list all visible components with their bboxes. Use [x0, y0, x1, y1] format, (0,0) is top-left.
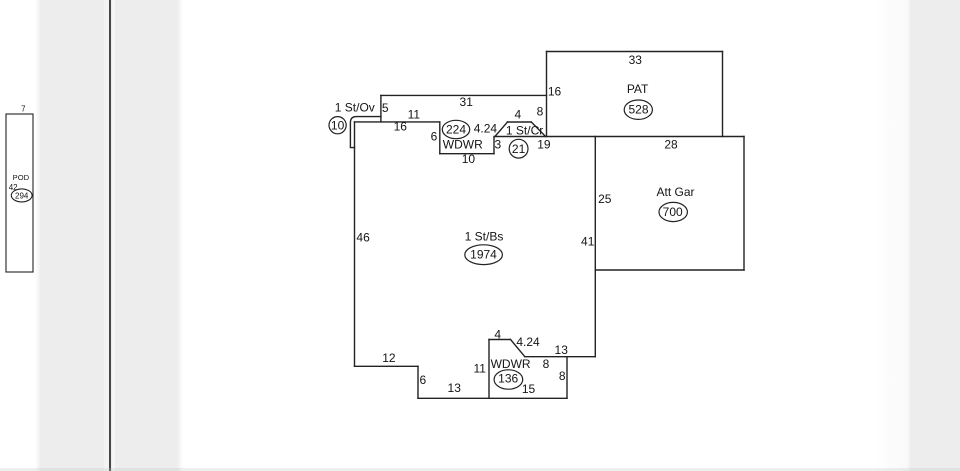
main white photo area	[177, 0, 909, 471]
svg-text:700: 700	[663, 205, 683, 219]
canopy trapezoid left diagonal	[495, 122, 508, 137]
svg-text:13: 13	[448, 381, 462, 395]
wall: upper-left top edge (16/11 ft)	[355, 121, 440, 123]
wall: bottom-left horizontal (12 ft)	[355, 365, 419, 367]
svg-text:16: 16	[394, 119, 408, 133]
svg-text:WDWR: WDWR	[491, 357, 531, 371]
circle around 21 (canopy area)	[509, 139, 528, 158]
svg-text:1 St/Bs: 1 St/Bs	[465, 229, 504, 243]
main photo right boundary soft step	[906, 0, 911, 471]
svg-text:5: 5	[382, 101, 389, 115]
left white strip: edge of previous carousel photo	[0, 0, 36, 471]
ellipse around 1974 (1 St/Bs area)	[465, 245, 503, 265]
svg-text:10: 10	[331, 118, 345, 132]
svg-text:8: 8	[559, 369, 566, 383]
wall: main left edge (46 ft)	[354, 122, 356, 366]
carousel separator bright ring right	[112, 0, 115, 471]
wall: WDWR lower left (11 ft)	[488, 340, 490, 399]
svg-text:8: 8	[537, 105, 544, 119]
wall: garage right edge	[743, 137, 745, 271]
svg-text:46: 46	[356, 231, 370, 245]
svg-text:8: 8	[543, 357, 550, 371]
svg-text:41: 41	[581, 235, 595, 249]
svg-text:15: 15	[522, 382, 536, 396]
svg-text:6: 6	[431, 129, 438, 143]
svg-text:11: 11	[408, 108, 421, 122]
POD sketch box	[6, 114, 33, 272]
wall: WDWR upper right side (3 ft)	[493, 137, 495, 154]
wall: WDWR upper left side (6 ft)	[439, 122, 441, 154]
wall: top-left jog (5 ft)	[380, 95, 382, 122]
ellipse around 224 (WDWR upper area)	[442, 120, 469, 138]
svg-text:136: 136	[498, 371, 518, 385]
svg-text:21: 21	[512, 142, 526, 156]
svg-text:19: 19	[537, 138, 551, 152]
main photo right-edge soft shadow	[875, 0, 906, 471]
wall: PAT top edge (33 ft)	[547, 51, 723, 53]
wall: main right edge (41 ft)	[594, 137, 596, 357]
circle around 10 (1 St/Ov area)	[329, 117, 346, 134]
svg-text:1 St/Ov: 1 St/Ov	[335, 100, 375, 114]
svg-text:224: 224	[446, 123, 466, 137]
wall: WDWR lower right (8 ft)	[566, 357, 568, 399]
svg-text:1974: 1974	[470, 247, 497, 261]
svg-text:12: 12	[382, 351, 396, 365]
POD area ellipse 294	[11, 189, 32, 202]
svg-text:PAT: PAT	[627, 82, 649, 96]
svg-text:528: 528	[628, 103, 648, 117]
svg-text:33: 33	[629, 53, 643, 67]
svg-text:31: 31	[460, 95, 474, 109]
wall: main top edge (31 ft)	[381, 94, 547, 96]
carousel separator dark vertical line	[109, 0, 111, 471]
svg-text:4.24: 4.24	[516, 335, 540, 349]
wall: bottom-right horizontal (13 ft)	[525, 356, 596, 358]
svg-text:4: 4	[515, 108, 522, 122]
ellipse around 700 (Att Gar area)	[659, 202, 687, 221]
wall: PAT left edge / main right upper (16+8 ft)	[546, 52, 548, 137]
carousel separator bright ring left	[104, 0, 109, 471]
svg-text:7: 7	[21, 104, 26, 113]
svg-text:Att Gar: Att Gar	[656, 185, 694, 199]
wall: bottom-left jog (6 ft)	[417, 366, 419, 398]
svg-text:28: 28	[664, 138, 678, 152]
svg-text:4: 4	[494, 328, 501, 342]
svg-text:3: 3	[495, 138, 502, 152]
lower diagonal (4.24 ft)	[511, 340, 525, 357]
svg-text:1 St/Cr: 1 St/Cr	[506, 123, 543, 137]
svg-text:11: 11	[473, 362, 486, 376]
wall: WDWR lower top (4 ft)	[489, 339, 511, 341]
wall: long horizontal at PAT bottom / garage top (19+28 ft)	[495, 136, 744, 138]
wall: bottom edge (13+15 ft)	[418, 397, 567, 399]
wall: WDWR upper bottom (10 ft)	[440, 153, 494, 155]
svg-text:10: 10	[462, 152, 476, 166]
svg-text:294: 294	[15, 191, 29, 200]
ellipse around 528 (PAT area)	[624, 100, 652, 119]
svg-text:POD: POD	[13, 173, 30, 182]
overhang 1 St/Ov outer boundary	[350, 117, 381, 148]
bottom subtle edge shade	[0, 468, 960, 471]
wall: garage bottom edge	[595, 269, 744, 271]
canopy trapezoid top (4 ft)	[508, 121, 532, 123]
svg-text:6: 6	[420, 373, 427, 387]
wall: PAT right edge	[722, 52, 724, 137]
svg-text:16: 16	[548, 85, 562, 99]
ellipse around 136 (WDWR lower area)	[494, 370, 523, 389]
soft edge of left white strip	[36, 0, 41, 471]
svg-text:WDWR: WDWR	[443, 137, 483, 151]
svg-text:13: 13	[555, 343, 569, 357]
svg-text:4.24: 4.24	[474, 122, 498, 136]
canopy trapezoid right diagonal	[531, 122, 545, 137]
svg-text:25: 25	[598, 192, 612, 206]
